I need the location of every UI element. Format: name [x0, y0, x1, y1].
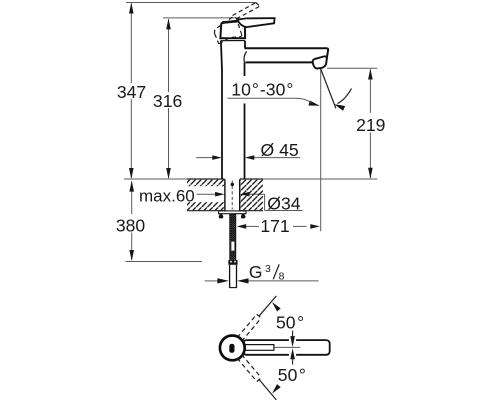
- svg-text:316: 316: [153, 91, 183, 111]
- svg-text:219: 219: [356, 115, 385, 135]
- svg-text:10°-30°: 10°-30°: [231, 79, 293, 99]
- svg-text:Ø34: Ø34: [267, 193, 300, 213]
- svg-text:Ø 45: Ø 45: [261, 140, 299, 160]
- svg-text:3: 3: [265, 263, 271, 275]
- svg-text:50°: 50°: [278, 365, 306, 385]
- svg-text:171: 171: [260, 216, 289, 236]
- svg-text:347: 347: [117, 82, 146, 102]
- svg-text:50°: 50°: [276, 312, 304, 332]
- svg-text:8: 8: [279, 271, 285, 283]
- svg-text:G: G: [249, 262, 263, 282]
- svg-text:380: 380: [116, 215, 146, 235]
- svg-text:max.60: max.60: [139, 187, 195, 206]
